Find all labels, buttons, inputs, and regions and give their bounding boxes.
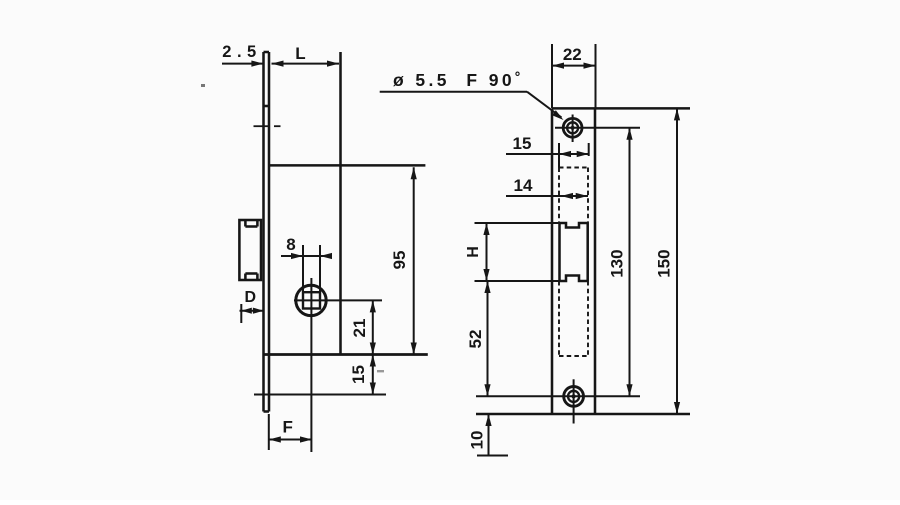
spindle follower circle (296, 285, 326, 315)
dim H top extension line (475, 222, 560, 224)
dim 15 left-view line with arrows (372, 355, 374, 395)
top screw hole center dot (571, 126, 575, 130)
hidden lock case left dashed (558, 168, 560, 224)
svg-text:22: 22 (563, 45, 582, 64)
lock case top edge + 95 extension (269, 164, 425, 167)
leader underline (380, 91, 527, 93)
latch cutout bottom edge with notch (560, 276, 588, 282)
dim 15 right extension lines (558, 143, 560, 168)
dim 15 bottom extension line (254, 394, 386, 396)
svg-text:52: 52 (466, 330, 485, 349)
svg-text:14: 14 (514, 176, 533, 195)
svg-text:10: 10 (468, 431, 487, 450)
centerline tick across strip (254, 125, 269, 127)
bottom screw hole center dot (572, 394, 576, 398)
dim 21 line with arrows (372, 300, 374, 354)
dim 130 line with arrows (629, 128, 631, 396)
latch cutout side edges (558, 223, 561, 281)
top screw hole outer circle (563, 118, 582, 137)
svg-text:150: 150 (654, 249, 673, 277)
dim D extension line (240, 304, 242, 323)
dim 10 line with arrow (488, 414, 490, 455)
scan speck left (201, 84, 205, 87)
strike keeper outline (239, 220, 261, 280)
svg-text:95: 95 (390, 251, 409, 270)
dim 10 bottom extension line (477, 455, 508, 457)
dim 15 right line with arrows (506, 153, 589, 155)
spindle vertical centerline (310, 278, 312, 452)
dim 14 line with arrows (506, 195, 588, 197)
svg-text:2.5: 2.5 (222, 43, 261, 61)
hidden lock case bottom dashed (559, 355, 588, 357)
dim 22 line with arrows (552, 65, 596, 67)
bottom screw hole vertical crosshair (573, 379, 575, 423)
bottom screw hole outer circle (564, 387, 584, 407)
bottom hole center extension line (476, 395, 640, 397)
dim H bottom extension line (475, 280, 560, 282)
strip joint mark (264, 105, 270, 108)
svg-text:L: L (295, 44, 305, 63)
svg-text:130: 130 (608, 249, 627, 277)
svg-text:F: F (283, 418, 293, 437)
spindle horizontal centerline (294, 299, 382, 301)
svg-text:H: H (465, 246, 482, 258)
faceplate left edge (551, 108, 554, 414)
dim 8 extension lines (302, 245, 304, 292)
scan speck dash (377, 370, 384, 372)
bottom screw hole inner circle (568, 391, 579, 402)
faceplate edge view strip (262, 52, 265, 412)
leader diagonal with arrow (527, 92, 562, 118)
svg-text:15: 15 (513, 134, 532, 153)
faceplate right edge (594, 108, 597, 414)
svg-text:15: 15 (349, 365, 368, 384)
faceplate bottom edge + extensions (476, 413, 690, 416)
dim 95 line with arrows (413, 167, 415, 354)
hidden lock case top dashed (559, 167, 588, 169)
top screw hole crosshair (572, 115, 574, 143)
dim 8 line with arrows (281, 255, 330, 257)
lock case bottom edge + dim extension (265, 353, 428, 356)
dim 52 line with arrows (487, 281, 489, 396)
hidden lock case right dashed (587, 168, 589, 224)
faceplate top edge + 150 extension (552, 107, 690, 110)
dim F left extension line (268, 414, 270, 450)
dim D line with arrows (240, 310, 264, 312)
svg-text:21: 21 (350, 319, 369, 338)
svg-text:D: D (245, 289, 257, 306)
dim F line with arrows (269, 439, 312, 441)
top hole center extension to 130 (592, 127, 640, 129)
dim H line with arrows (486, 223, 488, 281)
spindle square hole (303, 292, 320, 308)
dim 2.5 line and arrow (222, 63, 263, 65)
svg-text:ø 5.5 F 90˚: ø 5.5 F 90˚ (393, 70, 524, 90)
lock case right edge + L extension (339, 52, 342, 354)
dim 22 extension lines (551, 44, 553, 108)
top screw hole inner circle (567, 122, 578, 133)
strike keeper bottom tab (244, 274, 247, 281)
latch cutout top edge with notch (560, 223, 588, 228)
strike keeper top tab (244, 220, 247, 227)
dim 150 line with arrows (676, 108, 678, 414)
svg-text:8: 8 (286, 235, 295, 254)
dim L line with arrows (272, 63, 340, 65)
